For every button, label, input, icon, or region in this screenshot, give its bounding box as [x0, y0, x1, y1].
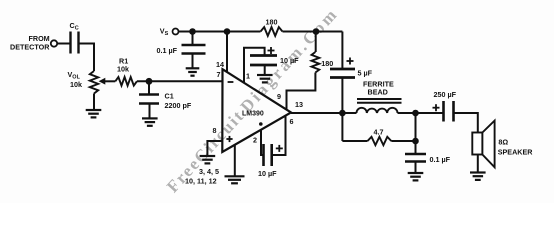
- node: [189, 28, 196, 35]
- capacitor 0.1uF: [192, 32, 194, 45]
- ground: [200, 156, 216, 163]
- ground: [86, 110, 102, 117]
- svg-text:FROM: FROM: [29, 34, 50, 43]
- svg-text:1: 1: [246, 72, 250, 81]
- resistor 180 (top): [261, 27, 283, 36]
- svg-text:SPEAKER: SPEAKER: [498, 148, 534, 157]
- wire: [57, 43, 70, 45]
- svg-text:8: 8: [213, 126, 217, 135]
- node: [412, 110, 419, 117]
- capacitor 250uF: [442, 101, 445, 122]
- svg-text:3, 4, 5: 3, 4, 5: [199, 167, 219, 176]
- svg-text:0.1 µF: 0.1 µF: [157, 46, 178, 55]
- node: [313, 28, 320, 35]
- svg-text:250 µF: 250 µF: [434, 90, 457, 99]
- wire: [341, 78, 343, 114]
- resistor R1 10k: [115, 77, 137, 86]
- svg-text:BEAD: BEAD: [368, 88, 388, 97]
- svg-text:180: 180: [321, 59, 333, 68]
- svg-text:180: 180: [266, 18, 278, 27]
- svg-text:VS: VS: [160, 27, 169, 38]
- svg-text:10, 11, 12: 10, 11, 12: [185, 177, 217, 186]
- svg-text:10 µF: 10 µF: [280, 56, 299, 65]
- resistor 4.7: [342, 140, 367, 142]
- svg-text:2200 pF: 2200 pF: [165, 101, 192, 110]
- wire: [454, 113, 478, 132]
- wire: [477, 155, 479, 172]
- capacitor 10uF (pin2 to pin6): [262, 144, 265, 166]
- capacitor 0.1uF (zobel): [405, 153, 426, 156]
- input terminal: [51, 40, 57, 46]
- svg-text:9: 9: [277, 92, 281, 101]
- svg-text:10k: 10k: [117, 65, 129, 74]
- wire pin 2: [261, 130, 263, 156]
- svg-text:DETECTOR: DETECTOR: [10, 43, 50, 52]
- wire: [398, 112, 444, 114]
- capacitor C1 2200pF: [148, 82, 150, 95]
- wire: [93, 94, 95, 110]
- svg-text:0.1 µF: 0.1 µF: [430, 155, 451, 164]
- wire: [137, 80, 223, 82]
- ground: [257, 75, 273, 82]
- ground: [470, 173, 486, 180]
- wire: [415, 113, 417, 154]
- wire pin 1: [244, 48, 265, 83]
- capacitor CC: [69, 32, 71, 54]
- wire pin 9: [287, 73, 316, 110]
- svg-text:C1: C1: [165, 92, 174, 101]
- capacitor 5uF: [330, 68, 355, 71]
- node (R1/C1 junction): [146, 78, 153, 85]
- ground pins 3,4,5,10,11,12: [234, 144, 236, 176]
- svg-text:10k: 10k: [70, 80, 82, 89]
- wire pin 14: [226, 32, 228, 73]
- svg-text:10 µF: 10 µF: [258, 169, 277, 178]
- svg-text:14: 14: [216, 60, 224, 69]
- svg-text:CC: CC: [70, 21, 79, 32]
- ground: [186, 68, 200, 75]
- wire: [79, 44, 95, 72]
- wire: [179, 31, 261, 33]
- ferrite bead: [357, 98, 402, 100]
- svg-text:2: 2: [253, 136, 257, 145]
- node: [412, 138, 419, 145]
- wire pin 8: [207, 141, 222, 155]
- wire pin 6: [272, 115, 286, 155]
- svg-text:6: 6: [290, 117, 294, 126]
- wire: [341, 32, 343, 69]
- ground: [408, 173, 424, 180]
- node: [224, 28, 231, 35]
- speaker: [472, 133, 482, 155]
- svg-text:7: 7: [217, 70, 221, 79]
- ground: [142, 118, 158, 125]
- svg-text:8Ω: 8Ω: [498, 138, 508, 147]
- wire: [341, 113, 343, 141]
- capacitor 10uF (pin 1): [250, 54, 277, 57]
- node: [339, 110, 346, 117]
- op-amp U1 LM390: [222, 69, 291, 152]
- svg-text:5 µF: 5 µF: [358, 69, 373, 78]
- resistor 180 (vertical): [315, 32, 317, 53]
- svg-text:4.7: 4.7: [374, 127, 384, 136]
- svg-text:13: 13: [295, 100, 303, 109]
- svg-text:VOL: VOL: [68, 70, 81, 81]
- potentiometer VOL 10k: [90, 71, 98, 94]
- output wire: [291, 112, 357, 114]
- svg-text:LM390: LM390: [242, 111, 264, 118]
- wire: [283, 31, 343, 33]
